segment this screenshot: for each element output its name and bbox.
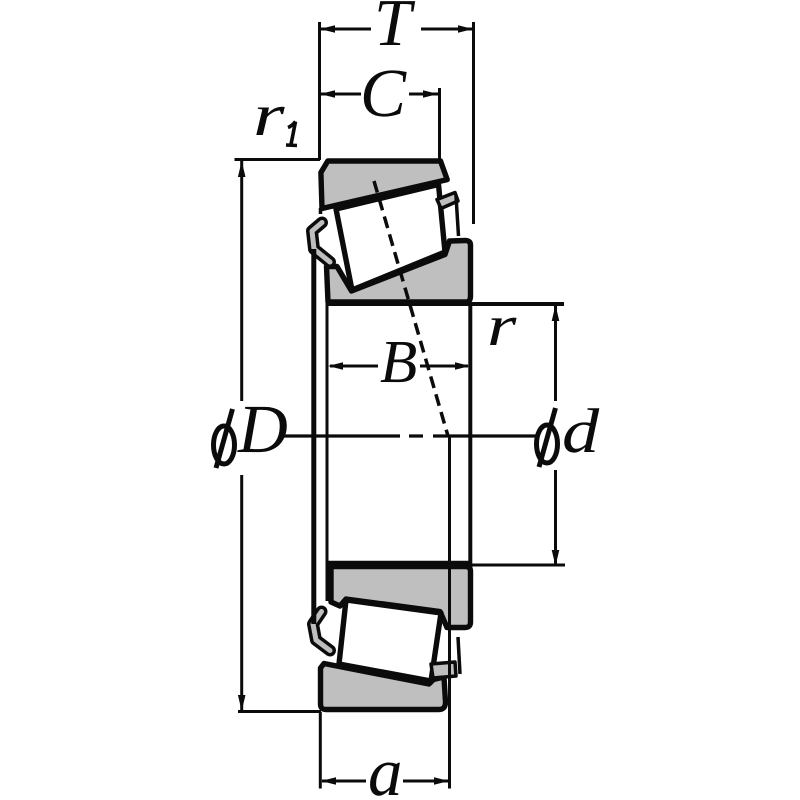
- arrow phiD bottom: [238, 695, 246, 711]
- wire a left extension line: [319, 712, 322, 789]
- arrow T right: [458, 25, 473, 33]
- upper left cage hook: [312, 223, 330, 263]
- wire a right extension line (from load center): [448, 436, 451, 789]
- wire bore-left silhouette line: [326, 267, 329, 601]
- arrow B left: [328, 362, 343, 370]
- lower roller: [339, 600, 441, 681]
- svg-text:B: B: [380, 329, 417, 396]
- label phid phi symbol: [537, 408, 558, 467]
- dimension B line: [330, 365, 468, 368]
- lower right cage arm: [458, 637, 460, 674]
- arrow B right: [455, 362, 470, 370]
- arrow T left: [320, 25, 335, 33]
- dimension C line: [320, 93, 438, 96]
- dimension phid line: [554, 306, 557, 565]
- arrow C right: [423, 90, 438, 98]
- wire bore-right silhouette line (cone back faces): [468, 302, 472, 568]
- dimension phiD line: [240, 161, 243, 711]
- svg-text:r: r: [253, 82, 285, 148]
- wire T left extension line: [318, 22, 321, 160]
- label phiD phi symbol: [214, 409, 235, 468]
- upper right cage arm: [456, 196, 459, 236]
- wire C right extension line: [438, 88, 441, 159]
- lower cup (outer ring bottom): [321, 664, 446, 710]
- arrow phiD top: [238, 161, 246, 177]
- svg-text:a: a: [368, 734, 403, 800]
- svg-text:T: T: [374, 0, 416, 60]
- svg-text:D: D: [237, 391, 288, 467]
- arrow C left: [320, 90, 335, 98]
- centerline (bearing axis, dash-dot): [281, 434, 537, 437]
- lower right cage flange: [431, 662, 456, 678]
- upper cone (inner ring top): [327, 241, 471, 303]
- upper cup (outer ring top): [321, 161, 447, 209]
- svg-text:r: r: [487, 293, 517, 358]
- wire left silhouette line (cage edge): [311, 249, 316, 624]
- arrow a right: [434, 777, 449, 785]
- lower cone (inner ring bottom): [331, 567, 471, 628]
- arrow phid bottom: [552, 550, 560, 566]
- dimension a line: [322, 780, 448, 783]
- upper right cage flange: [437, 193, 458, 209]
- upper roller: [336, 185, 445, 291]
- wire phiD top extension line: [235, 158, 321, 161]
- arrow phid top: [552, 305, 560, 321]
- roller axis dashed line: [374, 181, 448, 436]
- lower left cage hook: [313, 612, 330, 651]
- wire phid bottom extension: [328, 561, 470, 566]
- svg-text:C: C: [360, 55, 407, 131]
- wire phid top extension (bore line continues): [327, 302, 564, 306]
- arrow a left: [321, 777, 336, 785]
- wire cup corner connector: [319, 208, 323, 214]
- wire phiD bottom extension line: [238, 710, 321, 713]
- wire T right extension line: [472, 22, 475, 224]
- svg-text:d: d: [562, 396, 600, 466]
- dimension T line: [320, 28, 473, 31]
